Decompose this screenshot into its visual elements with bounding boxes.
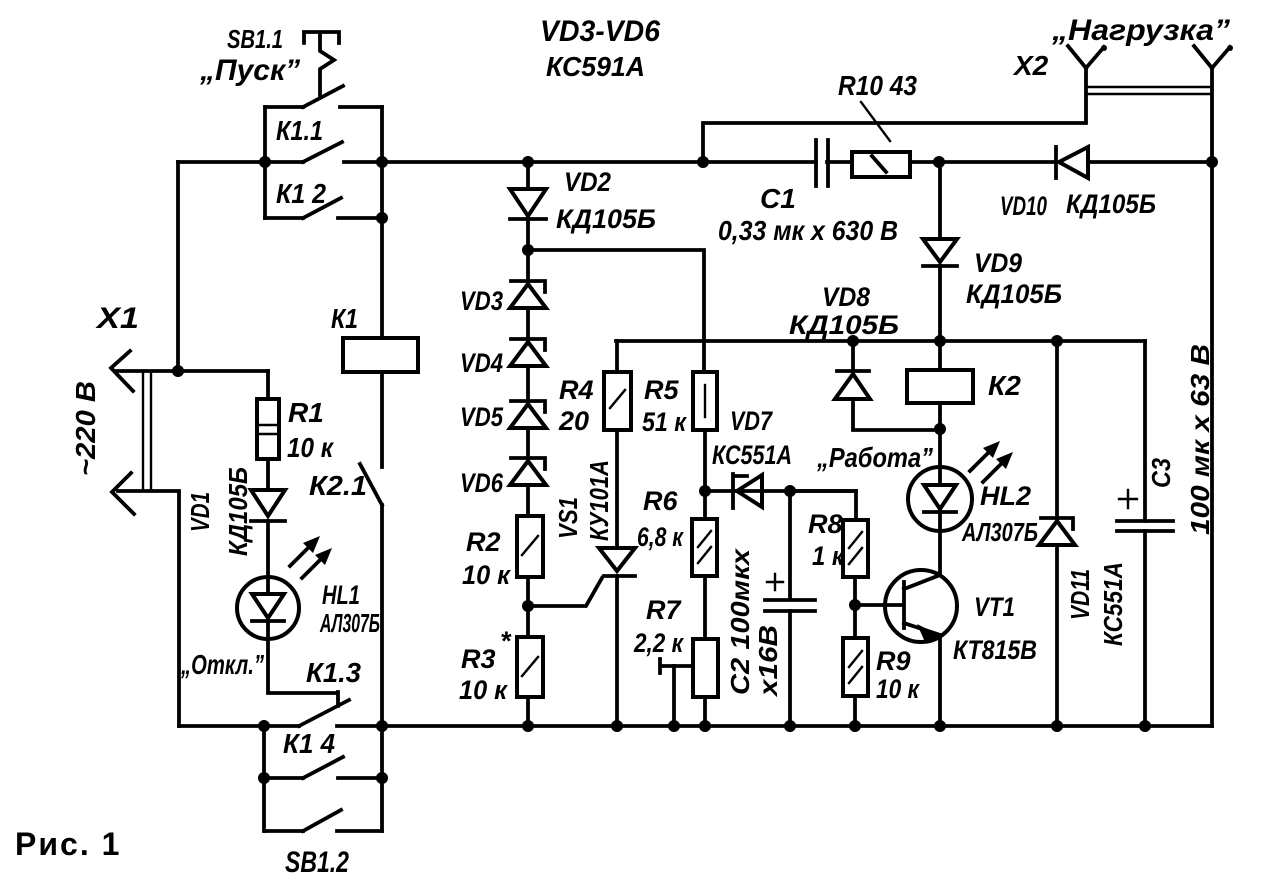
- svg-text:R5: R5: [644, 375, 679, 405]
- wire: [268, 621, 338, 706]
- svg-text:10 к: 10 к: [462, 560, 511, 590]
- svg-text:SB1.1: SB1.1: [227, 24, 283, 54]
- contact K1.1: [265, 115, 382, 162]
- svg-text:С3: С3: [1146, 458, 1176, 488]
- svg-text:R7: R7: [646, 595, 682, 625]
- svg-text:КД105Б: КД105Б: [966, 279, 1062, 309]
- relay coil K2: [907, 341, 1021, 430]
- svg-text:VD9: VD9: [974, 248, 1022, 278]
- svg-text:„Пуск”: „Пуск”: [199, 54, 300, 87]
- zener VD3: [460, 250, 546, 316]
- wire bottom rail left: [179, 724, 299, 728]
- svg-text:К1 4: К1 4: [283, 728, 335, 759]
- svg-text:~220 В: ~220 В: [70, 381, 101, 476]
- svg-text:К1.3: К1.3: [306, 657, 361, 688]
- node base: [849, 599, 861, 611]
- svg-text:К1.1: К1.1: [276, 115, 323, 146]
- svg-text:VT1: VT1: [974, 592, 1015, 622]
- wire: [380, 218, 384, 338]
- svg-text:К2.1: К2.1: [309, 470, 367, 501]
- resistor R4: [558, 341, 631, 436]
- contact K2.1: [309, 464, 382, 505]
- svg-text:VD5: VD5: [460, 402, 504, 432]
- svg-text:VD8: VD8: [822, 282, 870, 312]
- svg-text:Х1: Х1: [95, 302, 139, 335]
- svg-text:R3: R3: [461, 644, 496, 674]
- node R5-R6: [699, 485, 711, 497]
- capacitor C1: [718, 140, 898, 246]
- svg-text:100 мк х 63 В: 100 мк х 63 В: [1185, 344, 1215, 535]
- svg-text:КС551А: КС551А: [712, 440, 792, 470]
- switch SB1.2: [265, 810, 382, 879]
- svg-text:КД105Б: КД105Б: [556, 204, 656, 234]
- connector X1: [70, 302, 268, 726]
- svg-text:КС551А: КС551А: [1098, 562, 1128, 646]
- node X1 top junction: [172, 365, 184, 377]
- diode VD1: [185, 459, 285, 556]
- wire right rail: [1210, 162, 1214, 726]
- svg-text:х16В: х16В: [753, 625, 783, 698]
- label VD3-VD6 КС591А: [540, 15, 660, 82]
- svg-text:АЛ307Б: АЛ307Б: [961, 517, 1038, 547]
- svg-text:HL1: HL1: [322, 580, 360, 610]
- svg-text:VD4: VD4: [460, 348, 503, 378]
- diode VD10: [1000, 147, 1212, 221]
- zener VD5: [460, 366, 546, 432]
- svg-text:КУ101А: КУ101А: [584, 460, 614, 541]
- wire mid rail: [616, 339, 1145, 343]
- junction dots lower block: [258, 772, 388, 784]
- svg-text:КД105Б: КД105Б: [223, 467, 253, 556]
- capacitor C3: [1117, 341, 1215, 726]
- svg-text:0,33 мк х 630 В: 0,33 мк х 630 В: [718, 215, 898, 246]
- resistor R5: [642, 372, 717, 437]
- resistor R9: [843, 605, 920, 726]
- wire X2 feed: [703, 68, 1086, 162]
- svg-text:R8: R8: [808, 509, 843, 539]
- switch SB1.1: [199, 24, 382, 218]
- svg-text:HL2: HL2: [980, 481, 1031, 511]
- wire bottom rail: [337, 724, 1212, 728]
- capacitor C2: [725, 491, 815, 726]
- wire: [380, 372, 384, 467]
- svg-text:КТ815В: КТ815В: [953, 635, 1037, 665]
- resistor R3: [459, 606, 543, 705]
- transistor VT1: [855, 570, 1037, 726]
- svg-text:VD3: VD3: [460, 286, 503, 316]
- svg-text:К2: К2: [988, 370, 1021, 401]
- wire lower block verticals: [264, 726, 382, 831]
- LED HL1: [180, 536, 380, 680]
- svg-text:VD7: VD7: [730, 406, 774, 436]
- node VD2 bottom: [522, 244, 534, 256]
- svg-text:R1: R1: [288, 397, 324, 428]
- wire: [266, 521, 270, 594]
- resistor R10: [838, 70, 1056, 177]
- resistor R8: [790, 491, 868, 605]
- svg-text:VD11: VD11: [1065, 569, 1095, 620]
- svg-text:„Работа”: „Работа”: [816, 442, 933, 473]
- wire: [703, 576, 707, 639]
- svg-text:„Нагрузка”: „Нагрузка”: [1051, 14, 1230, 47]
- svg-text:10 к: 10 к: [876, 674, 920, 704]
- zener VD11: [1039, 341, 1128, 726]
- svg-text:R6: R6: [643, 486, 678, 516]
- svg-text:VD1: VD1: [185, 492, 215, 532]
- resistor R6: [637, 486, 717, 576]
- wire: [380, 505, 384, 726]
- contact K1.2: [265, 178, 382, 218]
- zener VD4: [460, 308, 546, 378]
- svg-text:1 к: 1 к: [812, 541, 845, 571]
- junction dots top rail: [259, 156, 1218, 224]
- diode VD8: [789, 282, 940, 430]
- wire: [526, 577, 530, 606]
- svg-text:VD2: VD2: [564, 167, 611, 197]
- relay coil K1: [331, 303, 418, 372]
- node C2 top: [784, 485, 796, 497]
- svg-text:КС591А: КС591А: [546, 51, 645, 82]
- wire left rail: [176, 162, 180, 371]
- zener VD7: [705, 406, 856, 508]
- svg-text:VS1: VS1: [553, 497, 583, 539]
- svg-text:С2 100мкх: С2 100мкх: [725, 547, 755, 695]
- node gate: [522, 600, 534, 612]
- svg-text:КД105Б: КД105Б: [1066, 189, 1156, 219]
- resistor R1: [257, 371, 335, 463]
- connector X2: [1012, 14, 1233, 162]
- svg-text:10 к: 10 к: [287, 432, 335, 463]
- svg-text:51 к: 51 к: [642, 407, 687, 437]
- svg-text:20: 20: [558, 406, 589, 436]
- junction dots mid rail: [847, 335, 1063, 347]
- svg-text:КД105Б: КД105Б: [789, 310, 899, 340]
- svg-text:*: *: [500, 626, 512, 656]
- svg-text:Рис. 1: Рис. 1: [15, 826, 121, 862]
- svg-text:R10 43: R10 43: [838, 70, 917, 101]
- junction dots bottom rail: [258, 720, 1151, 732]
- svg-text:VD6: VD6: [460, 468, 504, 498]
- svg-text:SB1.2: SB1.2: [285, 846, 349, 879]
- svg-text:VD10: VD10: [1000, 191, 1047, 221]
- node K2 bottom: [934, 423, 946, 435]
- resistor R7 trimmer: [633, 595, 718, 726]
- contact K1.3: [299, 657, 361, 726]
- svg-text:„Откл.”: „Откл.”: [180, 649, 264, 680]
- zener VD6: [460, 428, 546, 498]
- svg-text:R9: R9: [876, 646, 911, 676]
- wire: [526, 697, 530, 726]
- svg-text:VD3-VD6: VD3-VD6: [540, 15, 660, 48]
- contact K1.4: [265, 728, 382, 778]
- svg-text:К1: К1: [331, 303, 358, 334]
- svg-text:2,2 к: 2,2 к: [633, 628, 684, 658]
- wire top rail left: [178, 160, 265, 164]
- svg-text:Х2: Х2: [1012, 50, 1049, 81]
- svg-text:К1 2: К1 2: [276, 178, 326, 209]
- thyristor VS1: [528, 430, 635, 726]
- diode VD9: [923, 162, 1062, 341]
- wire to R5 branch: [528, 250, 704, 372]
- diode VD2: [510, 162, 656, 250]
- svg-text:С1: С1: [760, 183, 796, 214]
- svg-text:АЛ307Б: АЛ307Б: [319, 608, 380, 638]
- wire: [938, 512, 942, 575]
- svg-text:6,8 к: 6,8 к: [637, 522, 684, 552]
- svg-text:R2: R2: [466, 527, 501, 557]
- wire: [703, 430, 707, 491]
- LED HL2: [816, 430, 1038, 547]
- svg-text:R4: R4: [559, 375, 594, 405]
- svg-text:10 к: 10 к: [459, 675, 508, 705]
- resistor R2: [462, 485, 543, 590]
- wire top rail center: [382, 160, 816, 164]
